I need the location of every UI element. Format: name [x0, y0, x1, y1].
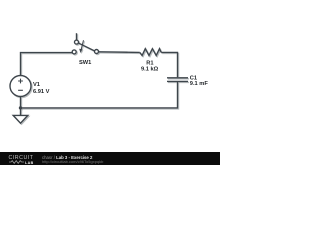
footer title text	[42, 155, 92, 160]
svg-text:R1: R1	[146, 61, 153, 67]
wire: switch right terminal to resistor R1 left lead	[98, 51, 139, 54]
capacitor C1 bottom plate	[167, 80, 188, 82]
switch SW1 arrow head	[79, 49, 82, 53]
switch SW1 right terminal	[95, 50, 99, 54]
node A junction dot	[19, 106, 22, 109]
switch SW1 top throw terminal	[75, 40, 79, 44]
voltage source V1 circle	[10, 76, 31, 97]
svg-text:9.1 kΩ: 9.1 kΩ	[141, 67, 159, 73]
resistor R1 zigzag body	[140, 49, 161, 56]
svg-text:6.91 V: 6.91 V	[33, 89, 50, 95]
CircuitLab logo text CIRCUIT	[9, 155, 34, 161]
svg-text:SW1: SW1	[79, 60, 91, 66]
svg-text:V1: V1	[33, 82, 40, 88]
ground triangle	[13, 115, 28, 123]
wire: V1 bottom to node A	[20, 97, 22, 108]
wire: resistor R1 to top-right corner down to capacitor C1 top plate	[161, 52, 177, 77]
V1 plus sign	[18, 79, 23, 84]
V1 minus sign	[18, 89, 23, 91]
footer watermark bar	[0, 152, 220, 165]
footer url text	[42, 159, 103, 164]
switch SW1 left terminal	[72, 50, 76, 54]
CircuitLab logo zigzag	[9, 160, 25, 164]
ground stub	[20, 108, 22, 116]
capacitor C1 top plate	[167, 77, 188, 79]
switch SW1 lever	[78, 43, 94, 51]
switch SW1 actuation arrow	[81, 40, 84, 50]
CircuitLab logo text LAB	[25, 161, 34, 165]
wire top-left: V1 top to switch left terminal	[21, 53, 73, 76]
switch SW1 top throw stub wire	[76, 33, 78, 40]
svg-text:9.1 mF: 9.1 mF	[190, 81, 209, 87]
wire: capacitor C1 bottom to bottom-right corner to ground node	[21, 82, 178, 108]
